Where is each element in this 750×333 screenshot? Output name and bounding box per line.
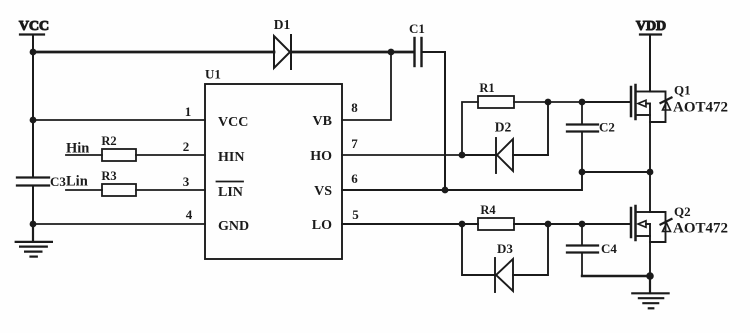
node VS-halfbridge junction	[647, 169, 654, 176]
svg-text:8: 8	[351, 100, 358, 115]
wire top rail D1 to C1	[291, 51, 414, 54]
wire R1 left branch up	[462, 102, 478, 155]
capacitor C2	[567, 102, 615, 172]
wire pin7 HO	[342, 154, 462, 156]
svg-text:5: 5	[352, 207, 359, 222]
ground (left)	[16, 224, 52, 257]
wire R2 to pin2	[136, 154, 205, 156]
svg-text:Q1: Q1	[674, 83, 691, 98]
node gate-C4 junction	[579, 221, 586, 228]
svg-text:U1: U1	[205, 67, 221, 82]
wire VDD to Q1 drain	[649, 35, 651, 92]
wire pin6 VS route	[342, 172, 650, 190]
svg-text:VS: VS	[314, 184, 332, 199]
svg-text:D2: D2	[495, 120, 512, 135]
wire VB pin8 link	[342, 52, 391, 120]
power symbol VCC	[19, 19, 49, 35]
wire pin4 GND	[33, 223, 205, 225]
node R4-D3 right junction	[545, 221, 552, 228]
node R1-D2 right junction	[545, 99, 552, 106]
op-amp U1 (IC box)	[205, 67, 342, 260]
power symbol VDD	[636, 19, 666, 35]
svg-text:VDD: VDD	[636, 19, 666, 34]
svg-text:Lin: Lin	[66, 174, 88, 190]
node HO-R1 junction	[459, 152, 466, 159]
node VS-C2 junction	[579, 169, 586, 176]
svg-text:C4: C4	[601, 241, 617, 256]
node LO-D3 junction	[459, 221, 466, 228]
node gate-C2 junction	[579, 99, 586, 106]
wire top rail VCC to D1	[33, 51, 274, 54]
resistor R4	[478, 203, 514, 230]
svg-text:R3: R3	[101, 169, 116, 183]
svg-text:C3: C3	[50, 174, 66, 189]
transistor Q2	[631, 172, 672, 276]
wire pin5 LO	[342, 223, 478, 225]
svg-text:LIN: LIN	[218, 185, 243, 200]
svg-text:R2: R2	[101, 134, 116, 148]
wire Lin to R3	[66, 189, 102, 191]
wire C1 right branch down to VS	[444, 52, 446, 190]
node C1-VS junction	[442, 187, 449, 194]
diode D1	[274, 17, 291, 69]
svg-text:7: 7	[351, 136, 358, 151]
svg-text:C2: C2	[599, 120, 615, 135]
node VCC-toprail junction	[30, 49, 37, 56]
svg-text:2: 2	[183, 139, 190, 154]
node VCC-pin1 junction	[30, 117, 37, 124]
svg-text:VB: VB	[313, 114, 332, 129]
capacitor C3	[17, 174, 66, 189]
svg-text:GND: GND	[218, 219, 249, 234]
svg-text:R4: R4	[480, 203, 496, 217]
svg-text:D1: D1	[274, 17, 291, 32]
resistor R2	[101, 134, 136, 161]
node GND-pin4 junction	[30, 221, 37, 228]
ground (right)	[632, 276, 668, 308]
diode D2	[462, 102, 548, 173]
svg-text:C1: C1	[409, 21, 425, 36]
svg-text:D3: D3	[497, 241, 513, 256]
svg-text:VCC: VCC	[19, 19, 49, 34]
resistor R1	[478, 81, 514, 108]
wire pin1 VCC	[33, 119, 205, 121]
svg-text:HIN: HIN	[218, 150, 244, 165]
wire C1 to corner	[422, 51, 446, 53]
svg-text:LO: LO	[312, 218, 332, 233]
node VB rail junction	[388, 49, 395, 56]
transistor Q1	[582, 85, 672, 172]
wire left VCC rail vertical	[32, 35, 34, 178]
svg-text:4: 4	[186, 207, 193, 222]
wire R4 to Q2 gate	[514, 223, 631, 225]
capacitor C4	[567, 224, 617, 276]
wire R1 to Q1 gate	[514, 101, 631, 103]
wire C4 bottom to Q2 source	[582, 275, 650, 277]
resistor R3	[101, 169, 136, 196]
svg-text:AOT472: AOT472	[673, 221, 728, 237]
capacitor C1	[409, 21, 425, 66]
svg-text:VCC: VCC	[218, 115, 248, 130]
wire R3 to pin3	[136, 189, 205, 191]
svg-text:6: 6	[351, 171, 358, 186]
wire Hin to R2	[66, 154, 102, 156]
svg-text:3: 3	[183, 174, 190, 189]
svg-text:HO: HO	[310, 149, 332, 164]
svg-text:AOT472: AOT472	[673, 100, 728, 116]
svg-text:R1: R1	[479, 81, 494, 95]
node source-ground junction	[646, 272, 654, 280]
wire left rail below C3	[32, 186, 34, 243]
diode D3	[462, 224, 548, 292]
svg-text:Q2: Q2	[674, 204, 691, 219]
svg-text:1: 1	[185, 104, 192, 119]
